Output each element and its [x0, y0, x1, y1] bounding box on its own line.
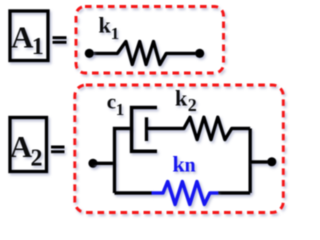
equals sign 1 [53, 36, 67, 44]
equals sign 2 [51, 146, 65, 154]
wire left node to left bus [93, 162, 115, 165]
svg-text:n: n [185, 154, 196, 176]
damper c1 piston [145, 117, 148, 141]
label kn [173, 151, 196, 176]
dashed enclosure box 1 [76, 7, 224, 74]
dashed enclosure box 2 [75, 85, 283, 213]
bottom branch black leads [115, 191, 251, 194]
label k2 [175, 86, 197, 116]
svg-text:2: 2 [31, 145, 43, 171]
damper rod and spring k2 [147, 117, 251, 139]
node right of A2 model [267, 157, 276, 166]
wire right bus to right node [250, 160, 272, 163]
damper c1 cylinder [132, 108, 157, 152]
node right of A1 model [195, 49, 204, 58]
wire with spring k1 [89, 42, 199, 65]
box label A2 [10, 118, 47, 172]
right bus wire [248, 129, 251, 194]
svg-text:1: 1 [116, 100, 125, 119]
label k1 [99, 13, 120, 43]
label c1 [107, 90, 125, 119]
svg-text:1: 1 [111, 24, 120, 43]
node left of A1 model [85, 49, 94, 58]
svg-text:2: 2 [188, 95, 197, 115]
svg-text:1: 1 [32, 34, 44, 60]
box label A1 [10, 11, 48, 61]
svg-text:c: c [107, 90, 116, 114]
node left of A2 model [88, 159, 97, 168]
svg-text:k: k [99, 13, 112, 38]
svg-text:A: A [10, 129, 33, 164]
svg-text:k: k [175, 86, 188, 111]
svg-text:A: A [11, 19, 34, 54]
spring kn (blue) [152, 182, 219, 205]
left bus wire [115, 129, 132, 194]
